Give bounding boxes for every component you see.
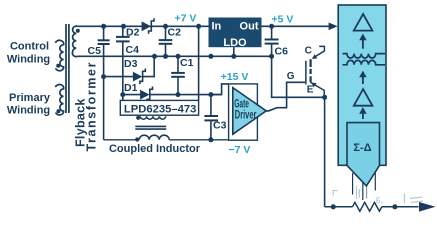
wire: emitter down to shunt rail: [324, 97, 326, 207]
node: C1 top: [176, 54, 181, 59]
ADC arrow 2: [359, 71, 366, 84]
svg-text:−7 V: −7 V: [229, 144, 251, 156]
ADC arrow 1: [359, 34, 366, 49]
control winding label: [7, 41, 50, 66]
node: D3 cathode on rail: [152, 54, 157, 59]
ADC buffer triangle 1: [354, 14, 373, 31]
svg-text:6.: 6.: [376, 196, 384, 206]
ADC sense line right: [374, 172, 376, 191]
node: +5V junction: [269, 24, 274, 29]
svg-text:D3: D3: [124, 58, 138, 70]
primary winding dot: [56, 109, 60, 113]
svg-text:C2: C2: [168, 26, 182, 38]
wire: D1 anode node down to inductor: [122, 95, 124, 101]
svg-text:C: C: [305, 46, 312, 57]
IGBT collector lead: [305, 46, 325, 59]
svg-text:+7 V: +7 V: [175, 13, 197, 25]
wire: LDO out to arrow: [262, 25, 330, 27]
wire: D3 anode row: [104, 76, 134, 78]
node: shunt left: [331, 204, 336, 209]
wire: D1 cathode row: [150, 94, 222, 96]
node: C4 top: [121, 24, 126, 29]
wire: common to emitter rail: [272, 56, 325, 97]
svg-text:LPD6235–473: LPD6235–473: [124, 104, 197, 116]
wire: gate driver output to IGBT gate: [258, 82, 305, 111]
svg-text:+5 V: +5 V: [272, 13, 294, 25]
wire: top +7V rail: [78, 25, 209, 27]
svg-text:C3: C3: [213, 120, 227, 132]
secondary winding coil: [72, 26, 77, 56]
node: C3 column crossing: [208, 92, 213, 97]
primary winding label: [7, 92, 51, 117]
node: +7V junction: [196, 24, 201, 29]
node: C2 bottom: [163, 54, 168, 59]
control winding coil: [55, 40, 63, 70]
capacitor C6: [265, 26, 288, 57]
svg-text:Out: Out: [240, 21, 259, 33]
svg-text:E: E: [307, 85, 314, 96]
coupled inductor core: [135, 126, 166, 129]
gate driver box: [229, 84, 258, 140]
capacitor C4: [116, 26, 139, 94]
svg-text:D1: D1: [124, 82, 138, 94]
svg-text:+15 V: +15 V: [221, 71, 249, 83]
svg-text:In: In: [212, 21, 222, 33]
svg-text:Driver: Driver: [235, 109, 257, 121]
node: emitter junction: [322, 95, 327, 100]
secondary winding dot: [76, 29, 80, 33]
node: D1 anode / C4 bottom: [120, 92, 125, 97]
node: C5 top: [101, 24, 106, 29]
svg-text:Winding: Winding: [7, 54, 50, 66]
capacitor C2: [159, 26, 181, 56]
arrow: +5V into isolated ADC: [329, 23, 338, 31]
svg-text:C5: C5: [88, 45, 102, 57]
node: C3 column top: [208, 54, 213, 59]
ADC isolation transformer: [343, 54, 386, 65]
wire: common rail: [78, 55, 272, 57]
shunt rail: [325, 206, 353, 208]
node: LDO ground: [231, 54, 236, 59]
svg-text:Transformer: Transformer: [85, 61, 99, 152]
IGBT emitter lead: [307, 82, 324, 97]
capacitor C3: [204, 95, 226, 140]
svg-text:G: G: [287, 71, 295, 82]
svg-text:Winding: Winding: [7, 104, 50, 116]
coupled inductor box LPD6235-473: [120, 100, 198, 115]
ADC arrow 3: [359, 107, 366, 119]
wire: +15V step to driver: [211, 84, 229, 95]
ADC sense line mid: [362, 182, 364, 201]
svg-text:LDO: LDO: [223, 37, 247, 49]
coupled inductor winding 2 + -7V wire: [104, 135, 229, 140]
IGBT channel bar: [310, 59, 312, 82]
node: shunt right: [392, 204, 397, 209]
svg-text:Σ-Δ: Σ-Δ: [353, 142, 371, 154]
wire: D3 cathode to rail: [143, 56, 155, 76]
control winding dot: [56, 64, 60, 68]
shunt resistor: [353, 202, 382, 211]
output arrow: [419, 202, 436, 212]
wire: D1 anode row: [123, 94, 141, 96]
node: C1 bottom: [176, 92, 181, 97]
wire: +7V node down to coupled inductor: [198, 26, 200, 100]
ADC sense line left: [352, 173, 354, 195]
winding 1 phase dot: [136, 116, 140, 120]
diode D2: [126, 18, 154, 38]
primary winding coil: [55, 84, 63, 114]
capacitor C1: [171, 56, 193, 94]
isolated ADC box: [338, 5, 386, 165]
wire: shunt to output arrow: [382, 206, 419, 208]
node: C3 bottom on -7V wire: [208, 137, 213, 142]
ADC sigma-delta modulator: [347, 123, 380, 186]
winding 2 phase dot: [135, 137, 139, 141]
node: C2 top: [163, 24, 168, 29]
coupled inductor winding 1: [140, 116, 166, 119]
faint washed marks: [333, 186, 423, 206]
svg-text:Coupled Inductor: Coupled Inductor: [109, 143, 201, 155]
svg-text:Control: Control: [10, 41, 49, 53]
svg-text:D2: D2: [126, 26, 140, 38]
svg-text:C4: C4: [126, 44, 140, 56]
capacitor C5: [88, 26, 110, 140]
svg-text:C6: C6: [275, 46, 289, 58]
node: D3 anode: [101, 74, 106, 79]
ADC buffer triangle 2: [354, 89, 373, 106]
node: C6 bottom: [269, 54, 274, 59]
flyback transformer label: [73, 61, 98, 152]
transformer core: [66, 24, 69, 113]
diode D1: [124, 82, 153, 102]
svg-text:C1: C1: [180, 57, 194, 69]
diode D3: [124, 58, 145, 84]
LDO box: [209, 18, 262, 49]
LDO ground stub: [233, 47, 235, 56]
gate driver triangle: [233, 88, 266, 135]
IGBT gate bar: [305, 61, 307, 85]
svg-text:Primary: Primary: [9, 92, 51, 104]
